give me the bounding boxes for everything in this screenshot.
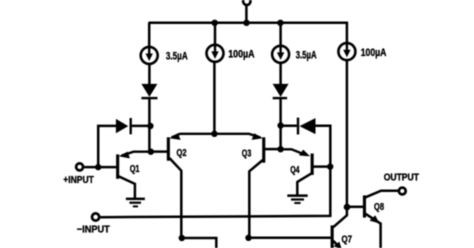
+INPUT terminal xyxy=(76,163,83,170)
svg-text:100µA: 100µA xyxy=(361,47,387,59)
wire CS3 column upper xyxy=(279,23,282,46)
wire terminal stem xyxy=(245,5,248,23)
junction top rail CS2 xyxy=(212,20,218,26)
wire CS2 column upper xyxy=(214,23,217,45)
wire bottom L from Q2 collector xyxy=(182,238,217,248)
junction top rail terminal xyxy=(243,20,249,26)
junction Q1e/Q2b node xyxy=(148,149,154,155)
junction top rail CS3 xyxy=(277,20,283,26)
wire V+ top rail xyxy=(148,23,347,43)
OUTPUT terminal xyxy=(399,188,406,195)
svg-text:Q8: Q8 xyxy=(374,202,384,213)
current source I1 3.5uA xyxy=(141,47,158,64)
transistor Q2 xyxy=(151,133,215,238)
ground (under Q4) xyxy=(287,194,307,204)
junction D2 cathode node xyxy=(277,122,283,128)
wire CS4 to Q8 base node xyxy=(346,60,349,207)
junction Q2/Q3 emitters xyxy=(211,131,217,137)
current source I3 3.5uA xyxy=(272,46,289,63)
wire diode to Q3 base node xyxy=(279,99,282,150)
diode D4 (under I3) xyxy=(273,84,289,99)
transistor Q1 xyxy=(84,152,151,198)
junction Q2 collector bottom xyxy=(179,235,185,241)
transistor Q4 xyxy=(281,149,331,195)
wire CS3 to diode xyxy=(279,62,282,84)
svg-text:−INPUT: −INPUT xyxy=(77,225,111,236)
transistor Q3 xyxy=(214,133,280,238)
svg-text:Q3: Q3 xyxy=(242,149,252,160)
wire CS1 column upper xyxy=(148,23,151,48)
junction Q4 base node xyxy=(327,163,333,169)
svg-text:Q2: Q2 xyxy=(177,148,187,159)
svg-text:3.5µA: 3.5µA xyxy=(296,50,317,62)
ground (under Q1) xyxy=(126,198,145,208)
wire -input line xyxy=(100,167,330,218)
junction +input/Q1 base xyxy=(95,164,101,170)
transistor Q8 xyxy=(347,191,398,248)
svg-text:Q7: Q7 xyxy=(342,235,353,246)
svg-text:+INPUT: +INPUT xyxy=(63,175,94,186)
svg-text:3.5µA: 3.5µA xyxy=(166,50,188,62)
wire Q7 base line xyxy=(249,237,331,240)
junction Q3 collector bottom xyxy=(245,235,251,241)
wire CS1 to diode xyxy=(148,64,151,85)
diode D3 (under I1) xyxy=(141,84,157,99)
wire diode to node xyxy=(148,99,151,153)
transistor Q7 xyxy=(331,207,347,248)
diode D2 (horizontal, right) xyxy=(281,118,331,167)
svg-text:Q1: Q1 xyxy=(130,164,140,175)
svg-text:100µA: 100µA xyxy=(228,49,254,61)
junction Q8 base node xyxy=(344,204,351,211)
diode D1 (horizontal, left) xyxy=(98,118,149,167)
current source I4 100uA xyxy=(338,43,355,60)
svg-text:OUTPUT: OUTPUT xyxy=(384,172,419,183)
junction Q3 base node xyxy=(277,146,283,152)
junction D1 cathode node xyxy=(147,123,153,129)
current source I2 100uA xyxy=(207,45,224,62)
V+ terminal xyxy=(243,0,250,5)
-INPUT terminal xyxy=(92,213,99,220)
svg-text:Q4: Q4 xyxy=(290,165,300,176)
wire CS2 to emitters node xyxy=(213,61,216,134)
